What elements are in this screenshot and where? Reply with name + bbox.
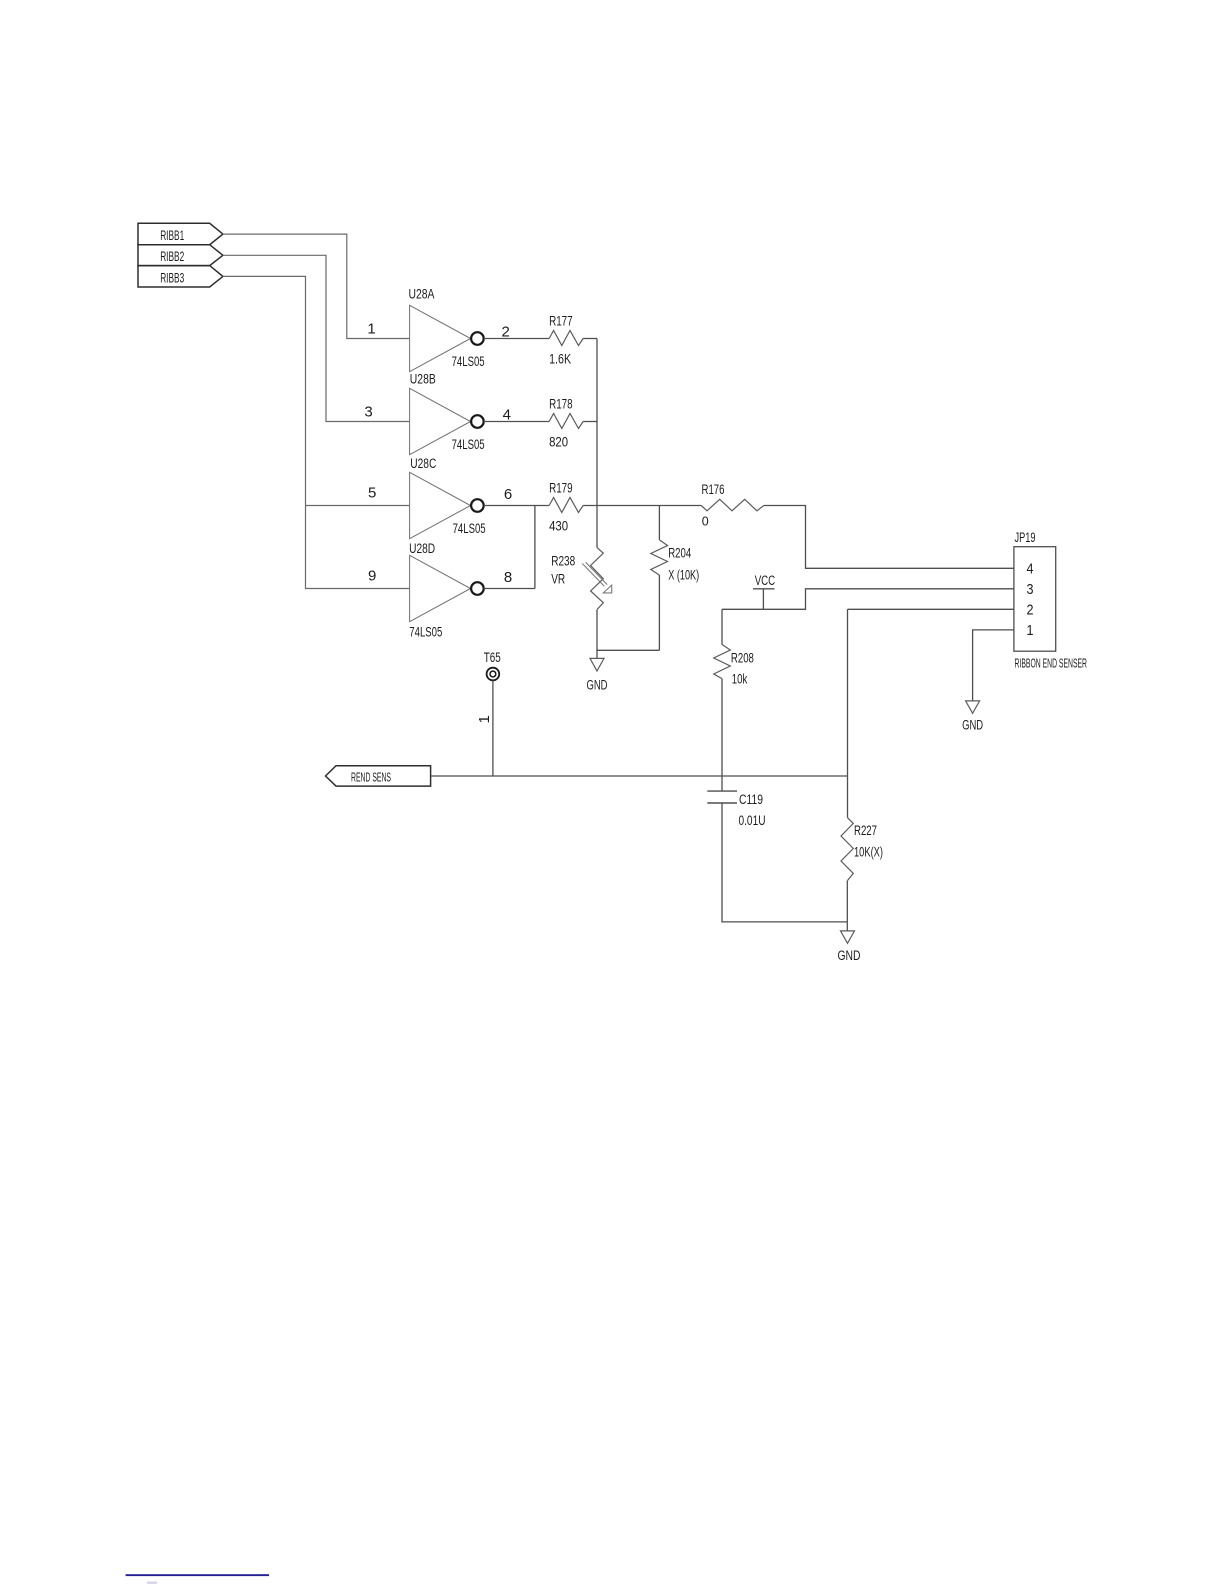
wire R176 to JP19 pin 4 bbox=[764, 506, 1014, 569]
svg-text:1: 1 bbox=[367, 320, 375, 337]
svg-text:10K(X): 10K(X) bbox=[854, 845, 883, 860]
wire U28C output to R179 bbox=[484, 505, 549, 507]
svg-text:10k: 10k bbox=[732, 671, 748, 686]
svg-text:R178: R178 bbox=[549, 396, 573, 411]
resistor R179 bbox=[549, 480, 583, 533]
svg-text:R208: R208 bbox=[731, 651, 754, 666]
power VCC bbox=[753, 573, 775, 609]
connector flag REND SENS bbox=[326, 766, 431, 786]
svg-text:6: 6 bbox=[504, 486, 512, 503]
wire R238 bottom to gnd junction bbox=[597, 610, 659, 651]
connector flag RIBB1 bbox=[138, 223, 223, 244]
svg-text:VR: VR bbox=[551, 572, 565, 587]
wire RIBB2 to U28B input bbox=[223, 255, 410, 421]
ground GND under R238/R204 bbox=[587, 650, 608, 692]
svg-text:JP19: JP19 bbox=[1015, 530, 1036, 545]
wire JP19 pin 2 net bbox=[848, 608, 1014, 610]
wire R208 down to C119 bbox=[721, 679, 723, 792]
wire node column R177/R178 down to R238 bbox=[596, 339, 598, 548]
svg-text:3: 3 bbox=[1027, 581, 1034, 598]
svg-text:R227: R227 bbox=[854, 823, 877, 838]
svg-text:74LS05: 74LS05 bbox=[409, 625, 442, 640]
svg-text:T65: T65 bbox=[484, 650, 501, 665]
connector flag RIBB2 bbox=[138, 245, 223, 266]
wire JP19 pin 3 net to VCC/R208 bbox=[722, 589, 1014, 610]
svg-text:R204: R204 bbox=[668, 546, 691, 561]
svg-text:U28D: U28D bbox=[409, 541, 435, 556]
wire RIBB1 to U28A input bbox=[223, 234, 410, 338]
svg-text:R238: R238 bbox=[551, 554, 575, 569]
svg-text:X (10K): X (10K) bbox=[668, 568, 699, 583]
svg-text:RIBB2: RIBB2 bbox=[160, 249, 184, 264]
ground GND bottom bbox=[838, 931, 861, 963]
wire JP19 pin 1 to GND bbox=[973, 630, 1014, 701]
svg-text:U28B: U28B bbox=[410, 372, 436, 387]
svg-text:9: 9 bbox=[368, 568, 376, 585]
connector JP19 bbox=[1014, 530, 1087, 671]
svg-text:1: 1 bbox=[476, 715, 493, 723]
wire RIBB3 to U28C/U28D inputs bbox=[223, 276, 410, 588]
svg-text:1.6K: 1.6K bbox=[549, 351, 571, 366]
svg-text:820: 820 bbox=[549, 434, 568, 449]
resistor R227 bbox=[841, 609, 883, 931]
resistor R176 bbox=[701, 482, 764, 529]
wire U28A output to R177 bbox=[484, 338, 549, 340]
svg-text:2: 2 bbox=[1027, 602, 1034, 619]
svg-text:74LS05: 74LS05 bbox=[452, 354, 485, 369]
inverter U28D bbox=[409, 541, 484, 640]
footer text remnant bbox=[147, 1582, 157, 1584]
wire row C from R179 to R176 bbox=[583, 505, 701, 507]
svg-text:GND: GND bbox=[838, 948, 861, 963]
ground GND at JP19 pin 1 bbox=[962, 701, 983, 733]
svg-text:8: 8 bbox=[504, 569, 512, 586]
svg-text:U28A: U28A bbox=[409, 287, 435, 302]
svg-text:VCC: VCC bbox=[755, 573, 776, 588]
wire T65 to REND SENS net bbox=[492, 680, 494, 776]
svg-text:R177: R177 bbox=[549, 313, 573, 328]
svg-text:74LS05: 74LS05 bbox=[453, 521, 486, 536]
wire R178 to node bbox=[583, 421, 597, 423]
resistor R204 bbox=[651, 506, 699, 651]
svg-text:GND: GND bbox=[962, 718, 983, 733]
svg-text:4: 4 bbox=[1027, 561, 1034, 578]
svg-text:0.01U: 0.01U bbox=[739, 813, 766, 828]
svg-text:74LS05: 74LS05 bbox=[452, 437, 485, 452]
resistor R178 bbox=[549, 396, 583, 449]
svg-text:RIBB3: RIBB3 bbox=[160, 271, 184, 286]
svg-text:C119: C119 bbox=[739, 792, 763, 807]
svg-text:1: 1 bbox=[1027, 622, 1034, 639]
svg-text:GND: GND bbox=[587, 678, 608, 693]
capacitor C119 bbox=[707, 791, 765, 828]
footer hyperlink rule bbox=[126, 1574, 269, 1576]
resistor R177 bbox=[549, 313, 583, 366]
svg-text:0: 0 bbox=[702, 515, 709, 529]
svg-text:R179: R179 bbox=[549, 480, 573, 495]
svg-text:5: 5 bbox=[368, 484, 376, 501]
svg-text:R176: R176 bbox=[702, 482, 725, 497]
wire R177 to node bbox=[583, 338, 597, 340]
test point T65 bbox=[484, 650, 501, 680]
svg-text:3: 3 bbox=[364, 404, 372, 421]
inverter U28B bbox=[410, 372, 485, 455]
wire C119 bottom to ground rail bbox=[722, 803, 848, 922]
wire REND SENS net bbox=[431, 775, 848, 777]
svg-text:U28C: U28C bbox=[410, 456, 436, 471]
svg-text:430: 430 bbox=[549, 518, 568, 533]
svg-text:REND SENS: REND SENS bbox=[351, 770, 391, 784]
connector flag RIBB3 bbox=[138, 266, 223, 287]
svg-text:RIBB1: RIBB1 bbox=[160, 228, 184, 243]
wire U28D output riser to row C bbox=[484, 506, 535, 589]
inverter U28A bbox=[409, 287, 485, 372]
svg-text:RIBBON END SENSER: RIBBON END SENSER bbox=[1015, 656, 1088, 671]
variable resistor R238 VR bbox=[551, 548, 612, 610]
inverter U28C bbox=[410, 456, 486, 539]
resistor R208 bbox=[714, 609, 754, 686]
wire U28B output to R178 bbox=[484, 421, 549, 423]
